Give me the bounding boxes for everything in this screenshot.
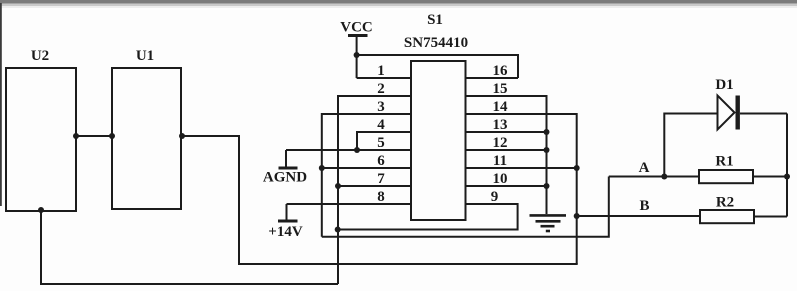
wire vertical down from corner xyxy=(239,136,578,264)
wire diode to right rail xyxy=(740,113,787,115)
node dot U2 bottom xyxy=(38,207,44,213)
svg-text:R2: R2 xyxy=(716,195,734,211)
svg-text:A: A xyxy=(639,160,650,176)
wire right rail xyxy=(786,114,788,217)
svg-text:11: 11 xyxy=(493,153,507,169)
node dot pin10 junction xyxy=(544,183,550,189)
node dot node B junction xyxy=(574,213,580,219)
node dot VCC junction xyxy=(354,52,360,58)
node dot pin11 junction xyxy=(574,165,580,171)
svg-text:S1: S1 xyxy=(427,12,443,28)
svg-text:B: B xyxy=(639,198,649,214)
node dot right rail A xyxy=(784,174,790,180)
wire pin 16 xyxy=(466,77,519,79)
chip U1 box xyxy=(112,68,181,209)
wire pin 4 corner xyxy=(357,132,411,150)
svg-text:U1: U1 xyxy=(136,48,154,64)
wire bus node A bottom xyxy=(322,177,609,237)
svg-text:VCC: VCC xyxy=(340,20,373,36)
wire pin 11 xyxy=(466,167,577,169)
svg-text:10: 10 xyxy=(493,171,508,187)
wire pin 8 +14V line xyxy=(287,203,412,205)
wire VCC bus to pin16 xyxy=(357,55,518,78)
svg-text:13: 13 xyxy=(493,117,508,133)
node dot pin7 junction xyxy=(335,183,341,189)
wire pin 7 xyxy=(338,185,411,187)
node dot pin5 junction xyxy=(354,147,360,153)
svg-text:9: 9 xyxy=(491,189,499,205)
wire pin 14 corner to node B rail xyxy=(466,114,577,264)
power +14V symbol xyxy=(286,204,288,220)
wire U2 bottom down xyxy=(41,210,338,284)
diode D1 xyxy=(718,96,735,130)
wire R2 to right rail xyxy=(754,216,787,218)
wire pin 10 xyxy=(466,185,547,187)
svg-text:D1: D1 xyxy=(715,77,733,93)
svg-text:3: 3 xyxy=(377,99,385,115)
power VCC symbol xyxy=(348,34,368,37)
node dot U1 right xyxy=(179,133,185,139)
resistor R1 xyxy=(699,170,753,183)
svg-text:R1: R1 xyxy=(715,154,733,170)
top gray border bar xyxy=(0,0,797,4)
svg-text:+14V: +14V xyxy=(268,224,303,240)
svg-text:12: 12 xyxy=(493,135,508,151)
node dot pin13 junction xyxy=(544,129,550,135)
ground symbol right xyxy=(530,214,567,217)
svg-text:6: 6 xyxy=(377,153,385,169)
svg-text:7: 7 xyxy=(377,171,385,187)
wire U1 right to corner xyxy=(181,135,240,137)
wire node A up to diode xyxy=(664,114,717,177)
wire pin 9 to bottom bus xyxy=(338,204,518,230)
svg-text:AGND: AGND xyxy=(263,170,307,186)
wire pin 5 AGND line xyxy=(286,149,411,151)
wire pin 12 xyxy=(466,149,547,151)
svg-text:8: 8 xyxy=(377,189,385,205)
wire node A row xyxy=(609,176,699,178)
svg-text:U2: U2 xyxy=(31,48,49,64)
svg-text:5: 5 xyxy=(377,135,385,151)
chip U2 box xyxy=(6,68,76,211)
node dot pin6 junction xyxy=(319,165,325,171)
svg-text:4: 4 xyxy=(377,117,385,133)
wire pin 6 xyxy=(322,167,411,169)
ground AGND symbol xyxy=(285,150,287,167)
node dot bus1 left xyxy=(335,227,341,233)
node dot U2-U1 left xyxy=(73,133,79,139)
op-amp S1 IC body xyxy=(411,61,466,220)
svg-text:SN754410: SN754410 xyxy=(404,35,468,51)
wire pin 1 xyxy=(357,77,411,79)
node dot U2-U1 right xyxy=(109,133,115,139)
svg-text:14: 14 xyxy=(493,99,509,115)
left border line xyxy=(0,3,2,206)
wire node B row xyxy=(577,215,700,217)
svg-text:2: 2 xyxy=(377,81,385,97)
wire pin 3 corner xyxy=(322,114,411,237)
svg-text:1: 1 xyxy=(377,63,385,79)
node dot pin12 junction xyxy=(544,147,550,153)
wire pin 15 corner to ground rail xyxy=(466,96,547,214)
resistor R2 xyxy=(700,210,754,223)
wire R1 to right rail xyxy=(753,176,787,178)
wire vertical x338 pin2 to bottom xyxy=(338,96,411,284)
node dot node A junction xyxy=(661,174,667,180)
svg-text:16: 16 xyxy=(493,63,509,79)
wire pin 13 xyxy=(466,131,547,133)
svg-text:15: 15 xyxy=(493,81,508,97)
wire U2 to U1 xyxy=(76,135,112,137)
